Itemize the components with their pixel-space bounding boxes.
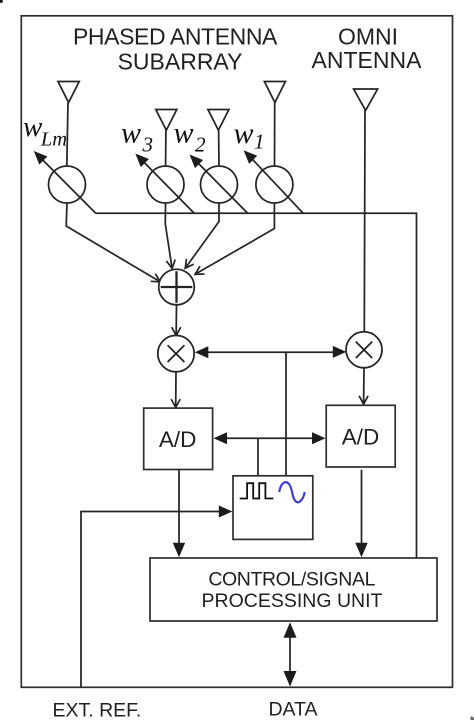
arrowhead into A/D 2 — [359, 396, 368, 404]
wire: A/D 2 output to control unit — [361, 470, 363, 546]
svg-text:CONTROL/SIGNAL: CONTROL/SIGNAL — [208, 569, 375, 591]
wire: LO distribution line between mixers — [208, 352, 333, 475]
svg-text:PHASED ANTENNA: PHASED ANTENNA — [73, 24, 278, 50]
corner artifact mark — [0, 0, 3, 3]
weight multiplier w_3 — [147, 166, 184, 203]
antenna element 2 (w_2) — [208, 110, 229, 131]
A/D converter 2 — [326, 405, 395, 467]
control arrow through w_1 — [250, 156, 304, 213]
svg-text:PROCESSING UNIT: PROCESSING UNIT — [202, 590, 383, 612]
omni antenna element — [354, 89, 378, 110]
mixer M2 — [346, 332, 382, 368]
arrowhead into A/D 1 (clock) — [214, 432, 228, 444]
weight multiplier w_2 — [201, 166, 238, 203]
wire: w_3 output to adder — [165, 203, 172, 267]
sine wave symbol (blue) — [279, 482, 305, 502]
wire: w_1 output to adder — [197, 203, 275, 273]
wire: adder to mixer M1 — [175, 305, 177, 334]
wire: antenna2 feed down to weight w_2 — [218, 130, 220, 166]
control arrow through w_2 — [196, 161, 248, 214]
wire: sampling clock line between A/D converters — [225, 438, 314, 475]
svg-text:A/D: A/D — [342, 425, 380, 450]
arrowhead into adder from w_Lm — [151, 274, 161, 282]
svg-text:OMNI: OMNI — [338, 24, 398, 50]
wire: external reference input — [81, 512, 221, 688]
svg-text:wLm: wLm — [23, 111, 67, 151]
wire: w_Lm output to adder — [66, 203, 158, 281]
wire: A/D 1 output to control unit — [178, 470, 180, 547]
weight multiplier w_1 — [256, 166, 293, 203]
control arrow through w_3 — [141, 160, 194, 214]
arrowhead into mixer M1 (LO) — [195, 346, 209, 358]
arrowhead into A/D 2 (clock) — [312, 432, 326, 444]
wire: omni antenna feed down to mixer M2 — [363, 110, 366, 332]
arrowhead A/D2 to control unit — [355, 543, 367, 558]
arrowhead into adder from w_1 — [195, 266, 205, 274]
svg-text:SUBARRAY: SUBARRAY — [118, 49, 243, 75]
wire: antenna feed down to weight w_1 — [274, 103, 276, 167]
reference oscillator / clock generator box — [233, 476, 313, 540]
arrowhead data up — [284, 622, 297, 638]
antenna element 3 (w_3) — [156, 110, 177, 131]
arrowhead into mixer M2 (LO) — [333, 346, 347, 358]
wire: antenna1 feed down to weight w_Lm — [67, 103, 68, 167]
summing junction (adder) — [159, 269, 195, 305]
wire: weight-control bus from control unit (horizontal + vertical) — [96, 213, 417, 558]
svg-text:ANTENNA: ANTENNA — [312, 47, 423, 73]
mixer M1 — [158, 335, 194, 371]
arrowhead into A/D 1 — [171, 399, 180, 407]
A/D converter 1 — [144, 408, 213, 469]
bottom-right artifact mark — [471, 716, 474, 720]
svg-text:EXT. REF.: EXT. REF. — [53, 700, 142, 720]
svg-text:w2: w2 — [174, 117, 207, 157]
wire: mixer M1 to A/D 1 — [175, 372, 177, 407]
arrowhead into adder from w_3 — [166, 260, 175, 269]
svg-text:DATA: DATA — [268, 698, 317, 720]
weight multiplier w_Lm — [49, 166, 86, 203]
wire: w_2 output to adder — [186, 203, 219, 267]
arrowhead A/D1 to control unit — [173, 543, 185, 558]
arrowhead into adder from w_2 — [185, 259, 194, 268]
pulse train symbol — [240, 483, 274, 498]
arrowhead data down — [284, 671, 297, 687]
wire: antenna3 feed down to weight w_3 — [165, 130, 167, 166]
control arrow through w_Lm — [40, 157, 96, 213]
svg-text:w3: w3 — [121, 117, 153, 157]
svg-text:A/D: A/D — [159, 427, 197, 452]
svg-text:w1: w1 — [234, 117, 265, 154]
control / signal processing unit — [150, 558, 437, 621]
arrowhead into mixer M1 — [172, 327, 181, 335]
antenna element 1 (w_Lm) — [58, 82, 79, 103]
antenna element (w_1) — [264, 82, 285, 103]
wire: bidirectional data link — [289, 624, 291, 685]
wire: mixer M2 to A/D 2 — [363, 368, 365, 403]
arrowhead ext-ref into oscillator — [219, 506, 233, 518]
